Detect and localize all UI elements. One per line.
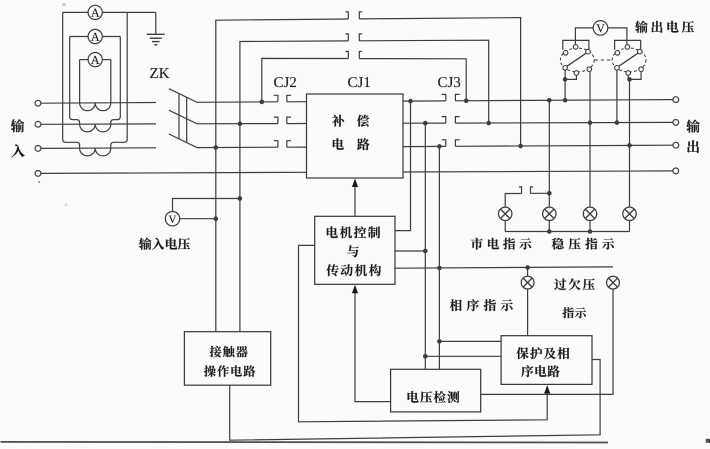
wire bypass 1 [216, 19, 348, 148]
wire CJ2-box C [287, 146, 307, 148]
input terminal phase B [35, 121, 41, 127]
wire motor to sense1 [395, 250, 425, 252]
output terminal N [673, 168, 679, 174]
contactor CJ1 pole 3 [346, 52, 363, 59]
wire sense row3 down [438, 146, 440, 369]
label 输出电压 output voltage [635, 21, 648, 33]
wire phase C ZK-CJ2 [196, 146, 278, 148]
wire detect to lamp6 [481, 289, 613, 394]
ammeter A3 loop (CT on phase A) [80, 60, 111, 111]
wire box-CJ3 B [403, 122, 446, 124]
output terminal A [673, 97, 679, 103]
output terminal B [673, 120, 679, 126]
node row2 tap [423, 121, 428, 126]
wire selR-BR hook [630, 72, 642, 80]
wire phase B ZK-CJ2 [196, 123, 278, 125]
label 输入电压 input voltage [139, 238, 152, 250]
wire sense row2 down [424, 123, 426, 369]
block motor control 电机控制与传动机构 [315, 216, 395, 284]
ammeter A1 [88, 5, 102, 19]
node bypass1 right [518, 144, 523, 149]
wire V right lead [180, 218, 216, 220]
wire box-CJ3 A [403, 100, 446, 102]
label ZK [150, 68, 158, 78]
wire phase A ZK-CJ2 [196, 101, 278, 104]
label CJ3 [438, 77, 447, 87]
wire lamp5 [527, 267, 529, 276]
wire lamp bottom bus [505, 231, 629, 233]
block protection 保护及相序电路 [501, 336, 592, 385]
wire selector mechanical link [595, 59, 612, 61]
wire lamp2 feed [548, 100, 550, 207]
label 相序指示 phase-sequence indicator [450, 299, 462, 311]
wire selL-BL to row1 [564, 70, 566, 100]
node bypass3-row1 [260, 100, 265, 105]
contactor CJ2 pole 1 [274, 95, 291, 102]
wire V top lead [173, 199, 240, 212]
label 输出 output [686, 120, 699, 133]
label CJ2 [274, 77, 283, 87]
wire bypass 3 [262, 58, 349, 102]
input terminal N [35, 171, 41, 177]
wire phase C to switch [41, 147, 156, 150]
wire lamp1 top + contact [505, 194, 521, 208]
wire output B [455, 121, 673, 124]
wire CJ2-box B [287, 123, 307, 125]
wire contactor-protection [230, 360, 600, 441]
lamp regulated 1 [583, 207, 596, 220]
wire output N [403, 171, 673, 172]
contactor CJ1 pole 1 [346, 12, 363, 19]
voltmeter V output [593, 21, 608, 36]
contactor CJ1 pole 2 [346, 34, 363, 41]
wire output C [455, 145, 673, 146]
block contactor operation 接触器操作电路 [184, 332, 270, 386]
scan artifact marks [62, 3, 65, 6]
wire sense to protection 1 [439, 340, 501, 342]
switch ZK blade 1 [169, 89, 197, 102]
wire sense to protection 2 [425, 355, 501, 357]
lamp mains 1 [499, 207, 512, 220]
wire motor to lamp bus [395, 267, 613, 268]
wire lamp4 feed [629, 79, 631, 207]
label 过欠压指示 over/under-voltage indicator [554, 278, 566, 290]
node bypass2-row2 [238, 121, 243, 126]
input terminal phase A [35, 100, 41, 106]
wire motor-protection feedback [299, 245, 548, 421]
node bypass3 right [464, 99, 469, 104]
wire selR-BL to row2 [616, 70, 618, 123]
lamp over/under-voltage [607, 276, 620, 289]
ammeter A2 [88, 29, 102, 43]
switch ZK blade 2 [169, 110, 197, 123]
wire neutral [41, 172, 307, 173]
wire phaseB feed [239, 124, 241, 332]
contactor CJ3 pole 2 [442, 117, 460, 124]
input terminal phase C [35, 146, 41, 152]
switch ZK blade 3 [169, 134, 197, 147]
arrow detect-to-motor [355, 291, 391, 402]
lamp regulated 2 [623, 207, 636, 220]
switch ZK link bars [178, 94, 180, 139]
block voltage detection 电压检测 [391, 369, 481, 412]
contactor CJ3 pole 1 [442, 94, 460, 101]
lamp phase-sequence [521, 276, 534, 289]
selector switch left [560, 48, 594, 72]
block compensation circuit 补偿电路 [307, 94, 404, 178]
contactor CJ3 pole 3 [442, 140, 460, 147]
wire phaseC feed [215, 148, 217, 332]
wire V right lead 2 [608, 28, 627, 45]
label 市电指示 mains indicator [471, 238, 483, 250]
ground [147, 33, 165, 35]
wire row1 to motor box [395, 101, 411, 231]
node bypass1-row3 [214, 145, 219, 150]
wire to ground [127, 11, 156, 13]
label 稳压指示 regulation indicator [552, 238, 564, 250]
output terminal C [673, 142, 679, 148]
ammeter A3 [88, 53, 102, 67]
node bypass2 right [486, 121, 491, 126]
contactor CJ2 pole 2 [274, 117, 291, 124]
wire V left lead [575, 28, 593, 45]
voltmeter V input [165, 212, 179, 226]
contactor CJ2 pole 3 [274, 141, 291, 148]
arrow motor-to-compensation [354, 185, 356, 217]
label 输入 input [11, 119, 24, 132]
wire box-CJ3 C [403, 145, 446, 147]
wire phase A to switch [41, 102, 156, 105]
wire bypass 2 [240, 41, 348, 124]
selector switch right [612, 48, 646, 72]
wire phase B to switch [41, 123, 156, 125]
wire selL-BM hook [565, 75, 576, 79]
wire lamp3 feed [589, 71, 591, 207]
lamp mains 2 [543, 207, 556, 220]
node row3 tap [437, 144, 442, 149]
scan border [1, 441, 609, 444]
label CJ1 [348, 77, 357, 87]
node row1 tap [408, 99, 413, 104]
ammeter A2 loop (CT on phase B) [70, 37, 121, 132]
wire output A [455, 100, 673, 101]
wire CJ2-box A [287, 101, 307, 103]
ammeter A1 loop (CT on phase C) [63, 12, 128, 156]
